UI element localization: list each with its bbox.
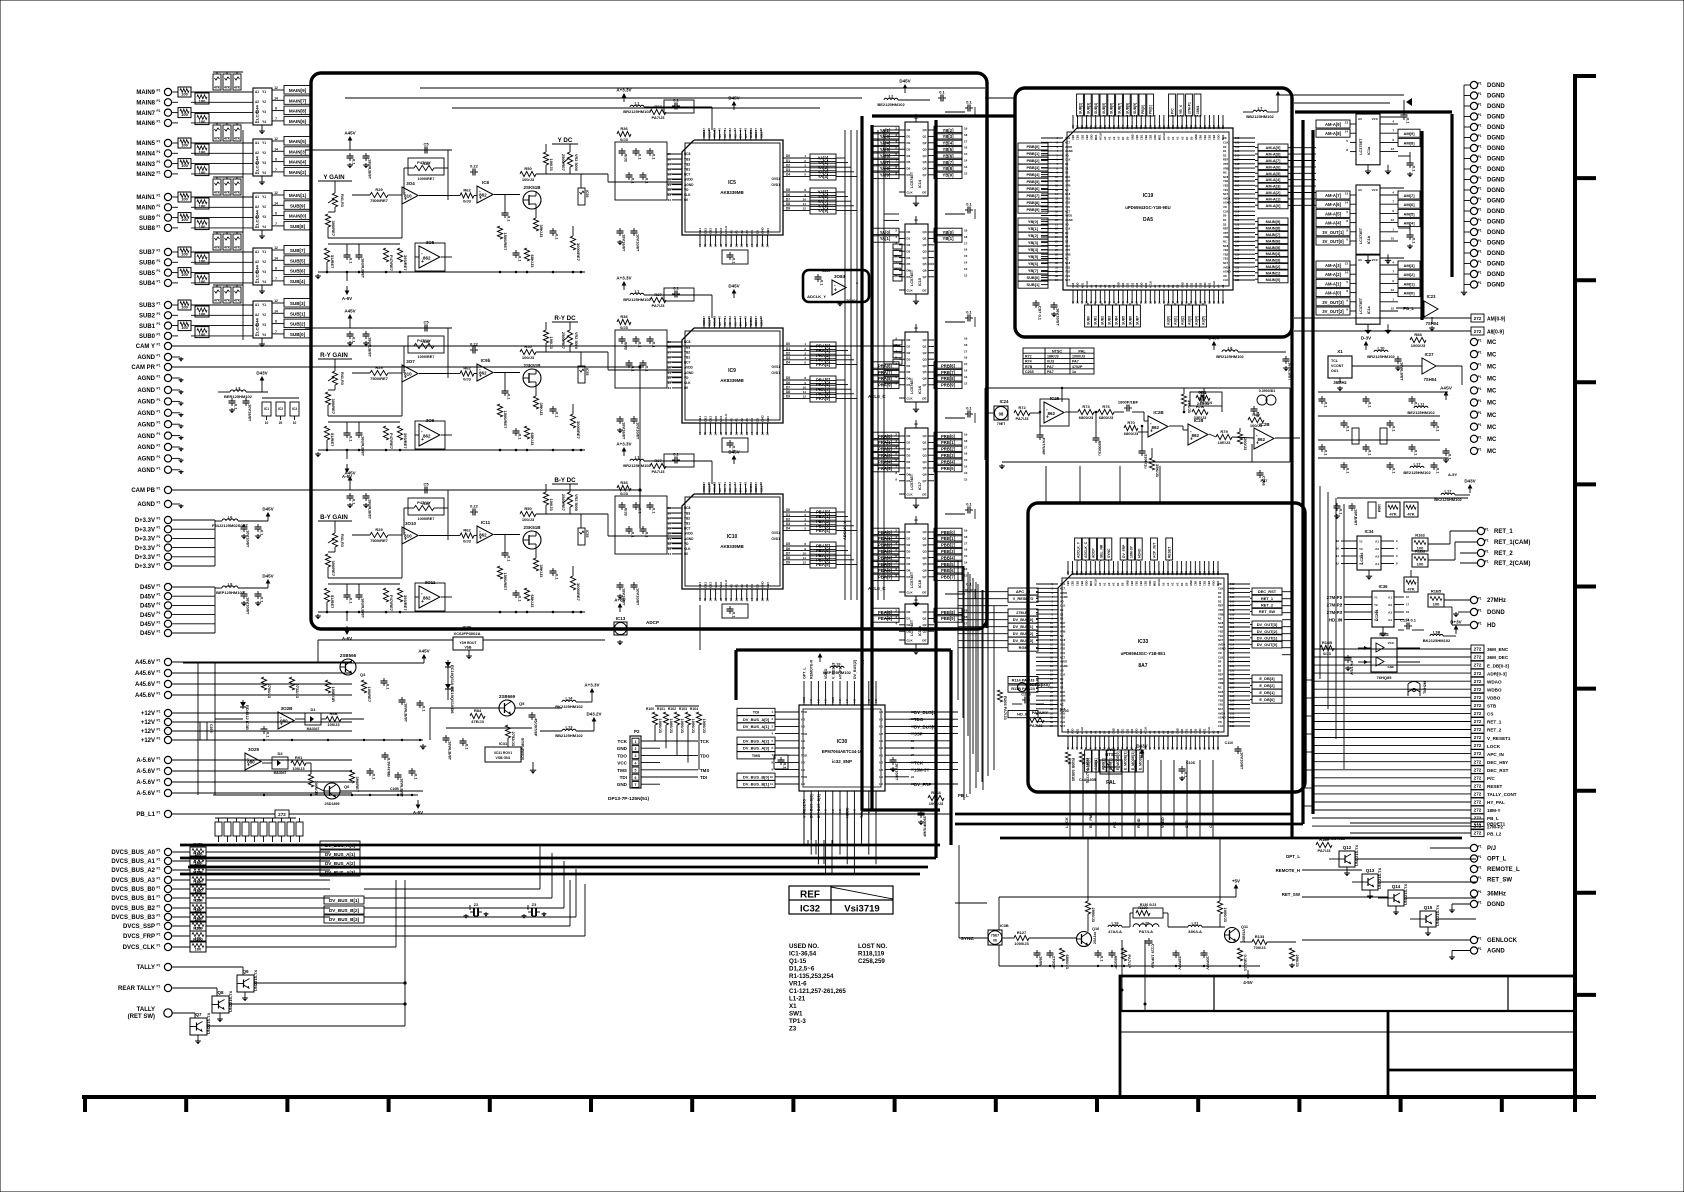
svg-text:A1: A1 <box>255 90 259 94</box>
svg-text:TP1-3: TP1-3 <box>789 1018 806 1025</box>
svg-text:OE: OE <box>922 591 926 595</box>
svg-text:AM-A[7]: AM-A[7] <box>1325 193 1342 198</box>
svg-text:A0: A0 <box>1358 188 1362 192</box>
svg-text:0.1: 0.1 <box>645 178 650 184</box>
net label YB[0] at IC19 left <box>1018 218 1048 225</box>
IC33 top pin stubs <box>1067 561 1069 574</box>
net label V_RESET1 right column <box>1471 734 1484 742</box>
svg-text:DVCS_CLK: DVCS_CLK <box>123 945 156 951</box>
connector pin D+3.3V 1 <box>164 516 171 523</box>
svg-text:GND: GND <box>1189 580 1193 586</box>
svg-text:YB[6]: YB[6] <box>943 153 955 158</box>
net label APC_IN at IC33 left <box>1008 588 1038 595</box>
svg-text:P47/RE7: P47/RE7 <box>389 433 394 450</box>
svg-text:15: 15 <box>703 244 707 248</box>
svg-text:PBB[4]: PBB[4] <box>1027 172 1041 177</box>
transistor Q6 2SD1899 <box>324 783 340 799</box>
svg-text:MAIN8: MAIN8 <box>136 101 155 107</box>
wire output MAIN[8] <box>272 110 284 112</box>
svg-text:116: 116 <box>1235 196 1240 200</box>
svg-text:18M-Y: 18M-Y <box>1487 808 1501 813</box>
svg-text:2SB669: 2SB669 <box>499 694 516 699</box>
connector pin +12V 3 <box>164 727 171 734</box>
svg-text:Q5: Q5 <box>922 262 926 266</box>
svg-text:DPT_L: DPT_L <box>1286 854 1300 859</box>
svg-text:BEP125HM102: BEP125HM102 <box>823 670 852 675</box>
svg-text:R29: R29 <box>375 365 383 370</box>
svg-text:3V_OUT[1]: 3V_OUT[1] <box>1322 230 1344 235</box>
svg-text:14: 14 <box>698 432 702 436</box>
svg-text:120: 120 <box>1230 660 1235 664</box>
capacitor C121 sync <box>1203 950 1205 953</box>
resistor R10B R107 <box>1065 752 1070 764</box>
svg-text:272: 272 <box>1474 329 1482 334</box>
svg-text:272: 272 <box>1474 671 1482 676</box>
svg-text:(RET SW): (RET SW) <box>128 1014 155 1020</box>
svg-text:46: 46 <box>749 316 753 320</box>
wire SYNC feed vertical <box>958 845 960 938</box>
svg-text:D2: D2 <box>907 543 911 547</box>
svg-text:A0: A0 <box>1212 730 1216 734</box>
svg-text:26: 26 <box>668 511 672 515</box>
svg-text:0.1: 0.1 <box>966 502 972 507</box>
svg-text:AGND: AGND <box>137 434 155 440</box>
svg-text:D45V: D45V <box>728 450 739 455</box>
svg-text:RET_2: RET_2 <box>1487 728 1502 733</box>
connector pin RET_1 <box>1477 527 1484 534</box>
svg-text:R29: R29 <box>375 527 383 532</box>
ground below IC15 <box>915 294 917 299</box>
svg-text:R16B: R16B <box>1322 640 1332 645</box>
svg-text:CB1: CB1 <box>1121 728 1125 734</box>
svg-text:119: 119 <box>1230 655 1235 659</box>
svg-text:OE: OE <box>922 289 926 293</box>
svg-text:V_RESETO: V_RESETO <box>803 799 807 818</box>
svg-text:IC25: IC25 <box>1050 396 1060 401</box>
svg-text:26: 26 <box>760 598 764 602</box>
svg-text:142: 142 <box>1093 570 1097 575</box>
svg-text:USED NO.: USED NO. <box>789 943 819 950</box>
svg-text:P1: P1 <box>1478 866 1482 870</box>
connector pin D+3.3V 4 <box>164 544 171 551</box>
capacitor C71 top right <box>1403 112 1405 115</box>
svg-text:CAM Y: CAM Y <box>136 344 155 350</box>
svg-text:AM-A[8]: AM-A[8] <box>1266 152 1282 157</box>
CPLD left pin stubs <box>775 711 799 713</box>
svg-text:P1: P1 <box>157 364 161 368</box>
svg-text:A2: A2 <box>1099 284 1103 288</box>
svg-text:P1: P1 <box>1478 947 1482 951</box>
svg-text:SUB0: SUB0 <box>1087 316 1091 325</box>
svg-text:VRB: VRB <box>1223 166 1229 170</box>
title block outline <box>1120 976 1575 1097</box>
svg-text:3: 3 <box>635 754 637 758</box>
capacitor C184 regulator <box>531 712 533 715</box>
svg-text:P1: P1 <box>1485 528 1489 532</box>
svg-text:16UR,B/8T: 16UR,B/8T <box>361 436 366 457</box>
svg-text:OE: OE <box>922 191 926 195</box>
svg-text:15: 15 <box>964 554 968 558</box>
svg-text:P1: P1 <box>157 279 161 283</box>
net label YB[3] out of IC14 <box>934 133 962 141</box>
svg-text:SEL_NR: SEL_NR <box>1099 544 1103 558</box>
svg-text:100/J3: 100/J3 <box>522 177 535 182</box>
bottom rail B-Y GAIN <box>318 611 585 613</box>
svg-text:D7: D7 <box>907 383 911 387</box>
svg-text:VCC: VCC <box>1388 641 1395 645</box>
filter chain signal wires <box>1030 412 1040 414</box>
svg-text:D43.2V: D43.2V <box>586 712 601 717</box>
svg-text:0.1: 0.1 <box>1448 454 1453 460</box>
capacitor C11B sync <box>1111 950 1113 953</box>
svg-text:DVCS_BUS_B0: DVCS_BUS_B0 <box>111 887 155 893</box>
svg-text:PBB[2]: PBB[2] <box>941 543 956 548</box>
svg-text:A0: A0 <box>1098 582 1102 586</box>
svg-text:113: 113 <box>1230 630 1235 634</box>
border tick marks bottom <box>83 1097 87 1112</box>
inductor L3 <box>230 390 246 392</box>
svg-text:14: 14 <box>274 309 278 313</box>
power flag A-6V Y GAIN <box>346 286 348 291</box>
svg-text:32: 32 <box>668 376 672 380</box>
svg-text:27: 27 <box>668 516 672 520</box>
svg-text:Q1: Q1 <box>922 537 926 541</box>
svg-text:A-5.6V: A-5.6V <box>136 780 155 786</box>
svg-text:YB[5]: YB[5] <box>943 147 955 152</box>
svg-text:3O5: 3O5 <box>426 240 435 245</box>
net label YA[5] into IC14 <box>871 145 899 153</box>
net label E_DB[0] at IC33 right <box>1252 696 1282 703</box>
svg-text:SUB1: SUB1 <box>139 324 156 330</box>
svg-text:P1: P1 <box>157 487 161 491</box>
svg-text:TDI: TDI <box>753 710 759 715</box>
svg-text:BER125HM102: BER125HM102 <box>224 394 253 399</box>
net label AM[8] out of IC1a <box>1398 138 1420 146</box>
svg-text:0.1: 0.1 <box>507 216 512 222</box>
CPLD IC30 EPM7064 body <box>799 705 885 791</box>
svg-text:P1: P1 <box>1478 609 1482 613</box>
svg-text:122: 122 <box>1230 668 1235 672</box>
svg-text:P1: P1 <box>1478 145 1482 149</box>
svg-text:VD: VD <box>684 188 689 192</box>
svg-text:8: 8 <box>275 107 277 111</box>
resistor R6B 100/J3 <box>326 716 341 721</box>
svg-text:Q4: Q4 <box>922 154 926 158</box>
svg-text:YB[2]: YB[2] <box>1028 233 1039 238</box>
connector pin NC 7 <box>1470 411 1477 418</box>
svg-text:145: 145 <box>1107 570 1111 575</box>
capacitor C102 <box>257 524 259 527</box>
svg-text:AGND: AGND <box>137 376 155 382</box>
svg-text:D4: D4 <box>739 134 743 138</box>
svg-text:393/RE7: 393/RE7 <box>403 433 408 449</box>
svg-text:IC32: IC32 <box>800 904 820 915</box>
svg-text:MAIN2: MAIN2 <box>136 172 155 178</box>
svg-text:REF: REF <box>1223 158 1229 162</box>
svg-text:IC19: IC19 <box>1143 193 1154 199</box>
svg-text:C258,259: C258,259 <box>858 958 885 965</box>
resistor R-PA7 sync <box>1121 948 1126 961</box>
resistor R7B filter <box>1149 458 1154 470</box>
svg-text:DGND: DGND <box>1487 94 1505 100</box>
bus vertical right of latches <box>985 120 988 628</box>
svg-text:36MHz: 36MHz <box>1487 892 1506 898</box>
svg-text:100: 100 <box>1417 562 1424 567</box>
svg-text:D2: D2 <box>1065 240 1069 244</box>
svg-text:SUB7: SUB7 <box>139 250 156 256</box>
svg-text:TDO: TDO <box>801 710 808 714</box>
svg-text:12: 12 <box>964 171 968 175</box>
wires caps to IC9 <box>667 341 682 343</box>
svg-text:135: 135 <box>1235 278 1240 282</box>
svg-text:100: 100 <box>199 224 206 229</box>
svg-text:BB2125HM102: BB2125HM102 <box>555 733 583 738</box>
svg-text:P1: P1 <box>1478 124 1482 128</box>
connector pin AGND 3 <box>164 386 171 393</box>
svg-text:P1: P1 <box>1478 447 1482 451</box>
svg-text:A0: A0 <box>718 488 722 492</box>
connector pin DVCS_FRP <box>164 932 171 939</box>
svg-text:0/J3: 0/J3 <box>463 377 472 382</box>
oscillator gate IC13 <box>614 622 627 635</box>
svg-text:Y1: Y1 <box>1374 596 1378 600</box>
svg-text:126: 126 <box>1230 686 1235 690</box>
inductor L21 sync <box>1188 925 1202 927</box>
svg-text:152: 152 <box>1144 124 1148 129</box>
net label PRB[4] out of IC17 <box>934 458 962 466</box>
wires vcxo grid <box>1318 391 1448 393</box>
svg-text:VRB: VRB <box>1065 184 1071 188</box>
svg-text:VRT: VRT <box>1218 608 1224 612</box>
ground power mid <box>422 744 424 746</box>
svg-text:YB2: YB2 <box>684 516 690 520</box>
net label SUB3 at IC19 bottom (vertical) <box>1106 305 1113 327</box>
svg-text:Y4: Y4 <box>262 333 266 337</box>
net label DV_OUT[2] at IC33 right <box>1252 628 1282 635</box>
connector pin D45V 3 <box>164 602 171 609</box>
net label SUB[8] <box>284 221 311 230</box>
IC10 top pin stubs <box>703 484 705 494</box>
svg-text:7: 7 <box>275 277 277 281</box>
svg-text:A1: A1 <box>1166 582 1170 586</box>
net label PBA[0] into IC18 <box>871 528 899 536</box>
svg-text:R130 0/J3: R130 0/J3 <box>1140 903 1157 907</box>
svg-text:E_DB[2]: E_DB[2] <box>1259 683 1275 688</box>
svg-text:40: 40 <box>718 482 722 486</box>
svg-text:IC14: IC14 <box>918 179 922 188</box>
svg-text:AS[5]: AS[5] <box>1202 316 1206 325</box>
wire SUB8 to series resistor <box>172 227 178 229</box>
svg-text:6: 6 <box>895 254 897 258</box>
net label SYNC at IC33 top (vertical) <box>1105 538 1112 560</box>
svg-text:100/J3: 100/J3 <box>327 722 340 727</box>
svg-text:D6: D6 <box>786 547 790 551</box>
svg-text:AM-A[1]: AM-A[1] <box>1325 281 1342 286</box>
svg-text:A45.6V: A45.6V <box>135 693 155 699</box>
svg-text:GND: GND <box>1180 282 1184 288</box>
svg-text:CLK: CLK <box>1060 673 1065 677</box>
svg-text:0.1: 0.1 <box>518 256 523 262</box>
svg-text:33: 33 <box>668 547 672 551</box>
svg-text:9: 9 <box>895 273 897 277</box>
potentiometer VR1 B-Y GAIN <box>334 521 336 533</box>
svg-text:1500/RE7: 1500/RE7 <box>503 233 508 252</box>
net label PRB[3] out of IC17 <box>934 451 962 459</box>
svg-text:IC55: IC55 <box>585 190 589 197</box>
svg-text:107: 107 <box>1230 604 1235 608</box>
svg-text:CB1: CB1 <box>1071 580 1075 586</box>
svg-text:Y2: Y2 <box>262 100 266 104</box>
svg-text:C114 0.1: C114 0.1 <box>1400 618 1417 623</box>
svg-text:18: 18 <box>719 244 723 248</box>
svg-text:OE: OE <box>922 397 926 401</box>
svg-text:0/J3: 0/J3 <box>620 137 629 142</box>
wires regulator section <box>430 707 499 709</box>
svg-text:R205 PA7/J3: R205 PA7/J3 <box>1003 696 1008 720</box>
svg-text:Q13: Q13 <box>1366 868 1375 873</box>
ground below IC17 <box>915 498 917 503</box>
svg-text:3O7: 3O7 <box>406 359 415 364</box>
connector pin DGND 20 <box>1470 281 1477 288</box>
svg-text:7: 7 <box>275 117 277 121</box>
net label ADR[0-3] right column <box>1471 669 1484 677</box>
resistor row above IC10 <box>650 463 666 468</box>
capacitor grid below vcxo <box>1321 396 1323 399</box>
svg-text:150: 150 <box>1130 570 1134 575</box>
svg-text:18UR,B/8T: 18UR,B/8T <box>368 159 373 180</box>
svg-text:AVDD: AVDD <box>1060 660 1067 664</box>
svg-text:NC7: NC7 <box>1065 278 1071 282</box>
net label DV_BUS_B1 <box>324 896 364 904</box>
svg-text:862: 862 <box>479 193 487 198</box>
svg-text:APC_IN: APC_IN <box>1016 589 1030 594</box>
svg-text:19: 19 <box>964 529 968 533</box>
svg-text:CAM PR: CAM PR <box>131 365 155 371</box>
svg-text:AVDD: AVDD <box>1223 196 1230 200</box>
svg-text:272: 272 <box>1474 703 1482 708</box>
svg-text:AGND: AGND <box>1065 218 1073 222</box>
svg-text:104: 104 <box>1230 591 1235 595</box>
capacitor C9 R-Y GAIN <box>552 406 554 409</box>
svg-text:4-5V: 4-5V <box>1243 980 1253 985</box>
svg-text:0.1: 0.1 <box>966 100 972 105</box>
resistor R133 sync <box>1252 939 1267 944</box>
ground below IC1b <box>1367 254 1369 258</box>
net label PBA[9] into IC19b <box>871 615 899 623</box>
svg-text:CB0: CB0 <box>766 416 770 422</box>
svg-text:47E/J3: 47E/J3 <box>471 719 484 724</box>
svg-text:BEP125HM102: BEP125HM102 <box>216 590 245 595</box>
svg-text:4: 4 <box>635 761 637 765</box>
CPLD bottom pin stubs <box>803 791 805 815</box>
net label YB[9] out of IC14 <box>934 171 962 179</box>
svg-text:143: 143 <box>1103 124 1107 129</box>
svg-text:A45V: A45V <box>418 649 429 654</box>
svg-text:Q6: Q6 <box>922 269 926 273</box>
svg-text:AGND: AGND <box>137 502 155 508</box>
svg-text:AVDD: AVDD <box>1218 642 1225 646</box>
ground below IC19b <box>915 644 917 649</box>
svg-text:A4: A4 <box>255 225 259 229</box>
svg-text:VD: VD <box>684 376 689 380</box>
connector pin D45V 4 <box>164 611 171 618</box>
svg-text:GENLOCK: GENLOCK <box>1487 938 1518 944</box>
svg-text:P1: P1 <box>157 692 161 696</box>
svg-text:20: 20 <box>279 421 283 425</box>
net label 3V_OUT[2] into IC1c <box>1316 307 1350 315</box>
JFET 2SK51B <box>523 191 541 209</box>
svg-text:CB0: CB0 <box>1116 728 1120 734</box>
svg-text:0.22: 0.22 <box>470 504 479 509</box>
svg-text:4702P: 4702P <box>1072 365 1083 369</box>
svg-text:MC: MC <box>1487 437 1497 443</box>
net label YB[4] at IC19 left <box>1018 246 1048 253</box>
svg-text:VD: VD <box>1065 153 1069 157</box>
svg-text:CLK: CLK <box>1065 158 1070 162</box>
connector pin SUB6 <box>164 259 171 266</box>
net label MAIN[1] <box>284 191 311 200</box>
wires B bus risers right <box>364 888 540 890</box>
svg-text:NC: NC <box>1223 171 1227 175</box>
svg-text:CB0: CB0 <box>1121 282 1125 288</box>
svg-text:YB2: YB2 <box>1065 270 1071 274</box>
svg-text:AS[0]: AS[0] <box>1167 316 1171 325</box>
svg-text:R6B: R6B <box>329 711 337 716</box>
svg-text:CB1: CB1 <box>1203 134 1207 140</box>
svg-text:CLK: CLK <box>1060 604 1065 608</box>
net label AM-A[0] into IC1c <box>1316 289 1350 297</box>
svg-text:P1: P1 <box>157 375 161 379</box>
svg-text:16: 16 <box>708 432 712 436</box>
svg-text:1000/RE7: 1000/RE7 <box>418 517 435 521</box>
svg-text:1000/J3: 1000/J3 <box>1223 908 1228 923</box>
svg-text:NC7: NC7 <box>684 173 691 177</box>
svg-text:PA7: PA7 <box>1072 360 1079 364</box>
svg-text:NC: NC <box>1065 188 1069 192</box>
svg-text:A3: A3 <box>1175 582 1179 586</box>
svg-text:0.1: 0.1 <box>652 342 657 348</box>
svg-text:151: 151 <box>1134 570 1138 575</box>
op-amp IC11 <box>477 526 493 543</box>
svg-text:AGND: AGND <box>137 422 155 428</box>
svg-text:SW1: SW1 <box>789 1011 803 1018</box>
svg-text:A1: A1 <box>1089 730 1093 734</box>
title block row line right b <box>1388 1069 1575 1072</box>
svg-text:0.1: 0.1 <box>631 366 636 372</box>
svg-text:SUB[7]: SUB[7] <box>290 248 306 253</box>
svg-text:3V_OUT[0]: 3V_OUT[0] <box>1322 239 1344 244</box>
svg-text:148: 148 <box>1126 124 1130 129</box>
svg-text:164: 164 <box>1193 570 1197 575</box>
svg-text:BK2125HM102: BK2125HM102 <box>555 704 583 709</box>
svg-text:P1: P1 <box>157 421 161 425</box>
svg-text:862: 862 <box>1048 411 1056 416</box>
svg-text:MAIN[7]: MAIN[7] <box>1266 232 1281 237</box>
svg-text:NC8: NC8 <box>684 506 691 510</box>
connector pin NC 9 <box>1470 435 1477 442</box>
svg-text:862: 862 <box>423 256 431 261</box>
capacitor C116 sync <box>1049 950 1051 953</box>
svg-text:D45V: D45V <box>140 631 155 637</box>
op-amp 3O29 power <box>245 753 261 770</box>
svg-text:R-Y GAIN: R-Y GAIN <box>320 352 348 359</box>
svg-text:P1: P1 <box>1485 550 1489 554</box>
net label AM-A[4] into IC1b <box>1316 219 1350 227</box>
svg-text:NC: NC <box>1060 634 1064 638</box>
svg-text:I-O: I-O <box>879 739 884 743</box>
svg-text:144: 144 <box>1102 570 1106 575</box>
svg-text:DGND: DGND <box>1487 209 1505 215</box>
